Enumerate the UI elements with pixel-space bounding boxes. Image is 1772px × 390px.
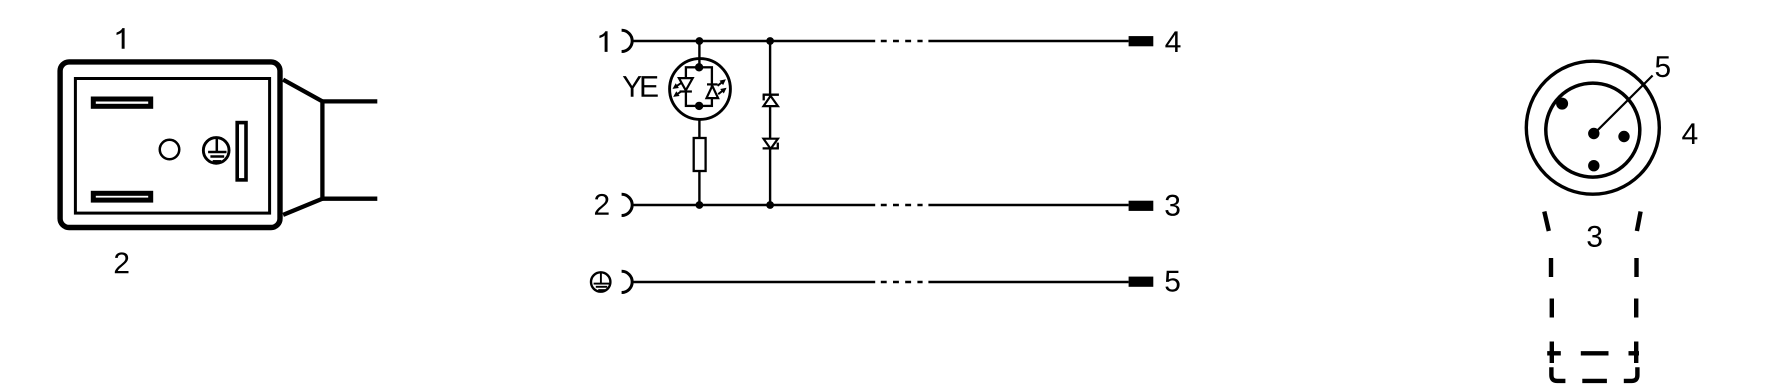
terminal 3 (black ferrule)	[1129, 201, 1154, 211]
label 2 (DIN pin 2)	[115, 252, 129, 273]
label 4	[1165, 31, 1180, 52]
wire LED circle to resistor	[698, 119, 700, 138]
junction dot row1 suppressor	[766, 37, 774, 45]
M12 pin 5 (center)	[1588, 128, 1599, 139]
wire resistor to row 2	[698, 171, 700, 205]
M12 pin 4 (right)	[1618, 131, 1629, 142]
DIN connector inner face outline	[75, 79, 269, 214]
suppressor branch wire	[769, 41, 771, 205]
LED loop rectangle	[686, 67, 712, 106]
LED left diode (pointing down)	[679, 78, 693, 91]
junction dot row1 LED branch	[696, 37, 704, 45]
contact arc row 3	[622, 271, 633, 292]
M12 connector outer circle	[1526, 61, 1659, 194]
LED right diode (pointing up)	[707, 84, 719, 98]
cable line bottom	[322, 197, 377, 201]
label 1 (schematic left)	[599, 31, 607, 52]
M12 body dashed bottom edge	[1551, 367, 1637, 381]
earth blade slot (vertical)	[237, 123, 246, 180]
wire row 1 solid left	[632, 40, 875, 42]
wire row 3 solid right	[928, 281, 1128, 283]
leader line pin 5	[1597, 76, 1653, 132]
pin slot 1 (top blade)	[93, 99, 150, 106]
terminal 4 (black ferrule)	[1129, 36, 1154, 46]
LED indicator circle	[670, 59, 731, 120]
label 3	[1165, 195, 1179, 216]
M12 body dashed shoulder line	[1547, 351, 1639, 355]
pin slot 2 (bottom blade)	[93, 193, 150, 200]
label 2 (schematic left)	[595, 194, 609, 215]
junction dot top of loop	[695, 63, 703, 71]
LED left emission arrows	[673, 83, 682, 97]
cable gland trapezoid	[283, 80, 322, 215]
resistor R (series)	[694, 138, 706, 171]
M12 key notch dot	[1556, 98, 1568, 110]
wire row 3 solid left	[632, 281, 875, 283]
label 1 (DIN pin 1)	[117, 28, 125, 49]
wire row 1 dashed break	[881, 40, 923, 42]
wire row 3 dashed break	[881, 281, 923, 283]
wire row 2 dashed break	[881, 204, 923, 206]
wire row 2 solid right	[928, 204, 1128, 206]
label YE (yellow LED)	[623, 76, 642, 97]
M12 connector inner circle	[1546, 83, 1640, 177]
terminal 5 (black ferrule)	[1129, 277, 1154, 287]
protective earth symbol (DIN connector)	[203, 138, 229, 164]
wire row 1 solid right	[928, 40, 1128, 42]
M12 body dashed left edge	[1544, 212, 1552, 364]
label 5	[1165, 271, 1179, 292]
wire row 2 solid left	[632, 204, 875, 206]
junction dot row2 suppressor	[766, 201, 774, 209]
label 5 (M12)	[1656, 56, 1670, 77]
zener diode upper (pointing up)	[763, 95, 779, 106]
junction dot bottom of loop	[695, 102, 703, 110]
protective earth symbol row 3	[591, 272, 610, 291]
DIN valve connector body outline	[60, 62, 280, 228]
center hole	[160, 140, 180, 160]
contact arc row 1	[622, 30, 633, 51]
contact arc row 2	[622, 194, 633, 215]
M12 pin 3 (bottom)	[1588, 160, 1599, 171]
M12 body dashed right edge	[1636, 212, 1640, 364]
label 3 (M12)	[1587, 226, 1601, 247]
wire from row1 into LED circle	[698, 41, 700, 68]
label 4 (M12)	[1682, 123, 1697, 144]
zener diode lower (pointing down)	[763, 139, 779, 149]
cable line top	[322, 99, 377, 103]
junction dot row2 LED branch	[696, 201, 704, 209]
LED right emission arrows	[718, 79, 727, 94]
